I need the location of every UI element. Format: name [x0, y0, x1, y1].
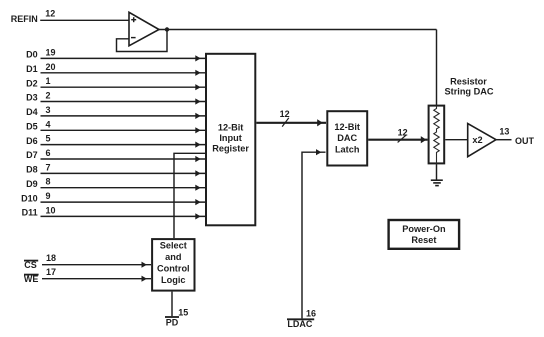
svg-text:8: 8 [46, 177, 51, 187]
svg-text:10: 10 [46, 205, 56, 215]
svg-text:Resistor: Resistor [450, 76, 487, 86]
svg-text:D7: D7 [26, 150, 38, 160]
svg-text:12-Bit: 12-Bit [334, 122, 360, 132]
svg-text:DAC: DAC [337, 133, 357, 143]
svg-text:OUT: OUT [515, 136, 535, 146]
svg-text:Latch: Latch [335, 144, 360, 154]
svg-text:D11: D11 [22, 208, 38, 218]
svg-text:6: 6 [46, 148, 51, 158]
svg-text:17: 17 [46, 267, 56, 277]
svg-text:1: 1 [46, 76, 51, 86]
svg-text:D4: D4 [26, 107, 38, 117]
svg-text:Control: Control [157, 264, 190, 274]
svg-text:D6: D6 [26, 136, 38, 146]
svg-text:19: 19 [46, 47, 56, 57]
svg-text:REFIN: REFIN [11, 14, 38, 24]
svg-text:12-Bit: 12-Bit [218, 123, 244, 133]
svg-text:12: 12 [280, 109, 290, 119]
svg-text:12: 12 [398, 127, 408, 137]
svg-text:WE: WE [24, 274, 39, 284]
svg-text:and: and [165, 252, 181, 262]
svg-text:Logic: Logic [161, 275, 186, 285]
svg-text:D8: D8 [26, 165, 38, 175]
svg-text:20: 20 [46, 62, 56, 72]
svg-text:Power-On: Power-On [402, 224, 446, 234]
svg-text:x2: x2 [472, 135, 482, 145]
svg-text:Select: Select [160, 241, 187, 251]
svg-text:Input: Input [219, 133, 241, 143]
svg-text:LDAC: LDAC [287, 319, 312, 329]
svg-text:D5: D5 [26, 122, 38, 132]
svg-text:D10: D10 [21, 193, 38, 203]
svg-text:16: 16 [306, 308, 316, 318]
svg-text:D0: D0 [26, 50, 38, 60]
svg-text:Register: Register [212, 144, 249, 154]
svg-text:15: 15 [178, 307, 188, 317]
svg-text:4: 4 [46, 119, 51, 129]
svg-text:D2: D2 [26, 78, 38, 88]
svg-text:5: 5 [46, 134, 51, 144]
svg-text:Reset: Reset [411, 235, 436, 245]
svg-text:D3: D3 [26, 93, 38, 103]
svg-text:3: 3 [46, 105, 51, 115]
svg-text:13: 13 [499, 126, 509, 136]
svg-text:18: 18 [46, 253, 56, 263]
svg-text:12: 12 [45, 8, 55, 18]
svg-text:D1: D1 [26, 64, 38, 74]
svg-text:CS: CS [24, 260, 37, 270]
svg-text:2: 2 [46, 91, 51, 101]
svg-text:String DAC: String DAC [445, 87, 494, 97]
svg-text:PD: PD [166, 317, 179, 327]
svg-text:7: 7 [46, 162, 51, 172]
svg-text:9: 9 [46, 191, 51, 201]
svg-text:D9: D9 [26, 179, 38, 189]
